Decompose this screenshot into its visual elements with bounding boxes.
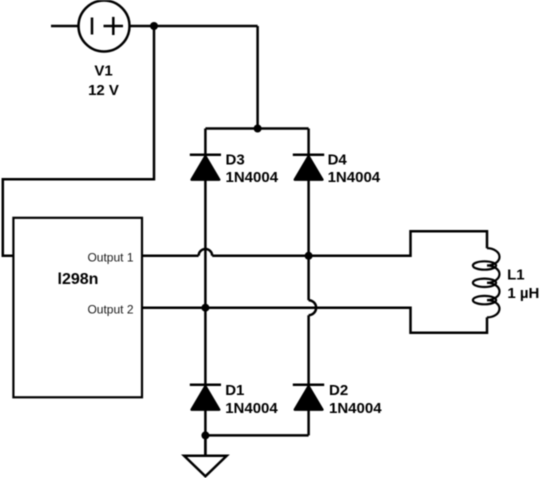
svg-text:L1: L1 bbox=[507, 267, 525, 284]
svg-text:1N4004: 1N4004 bbox=[329, 400, 382, 417]
svg-text:D3: D3 bbox=[226, 151, 245, 168]
svg-text:D4: D4 bbox=[328, 151, 348, 168]
svg-text:1N4004: 1N4004 bbox=[226, 169, 279, 186]
svg-text:V1: V1 bbox=[94, 63, 112, 80]
svg-text:Output 2: Output 2 bbox=[87, 302, 133, 316]
svg-text:l298n: l298n bbox=[58, 271, 99, 288]
svg-text:1N4004: 1N4004 bbox=[328, 169, 381, 186]
svg-text:D2: D2 bbox=[329, 382, 348, 399]
svg-text:12 V: 12 V bbox=[88, 82, 119, 99]
svg-text:Output 1: Output 1 bbox=[87, 251, 133, 265]
svg-text:1N4004: 1N4004 bbox=[225, 400, 278, 417]
svg-text:1 µH: 1 µH bbox=[507, 285, 539, 302]
svg-text:D1: D1 bbox=[225, 382, 244, 399]
